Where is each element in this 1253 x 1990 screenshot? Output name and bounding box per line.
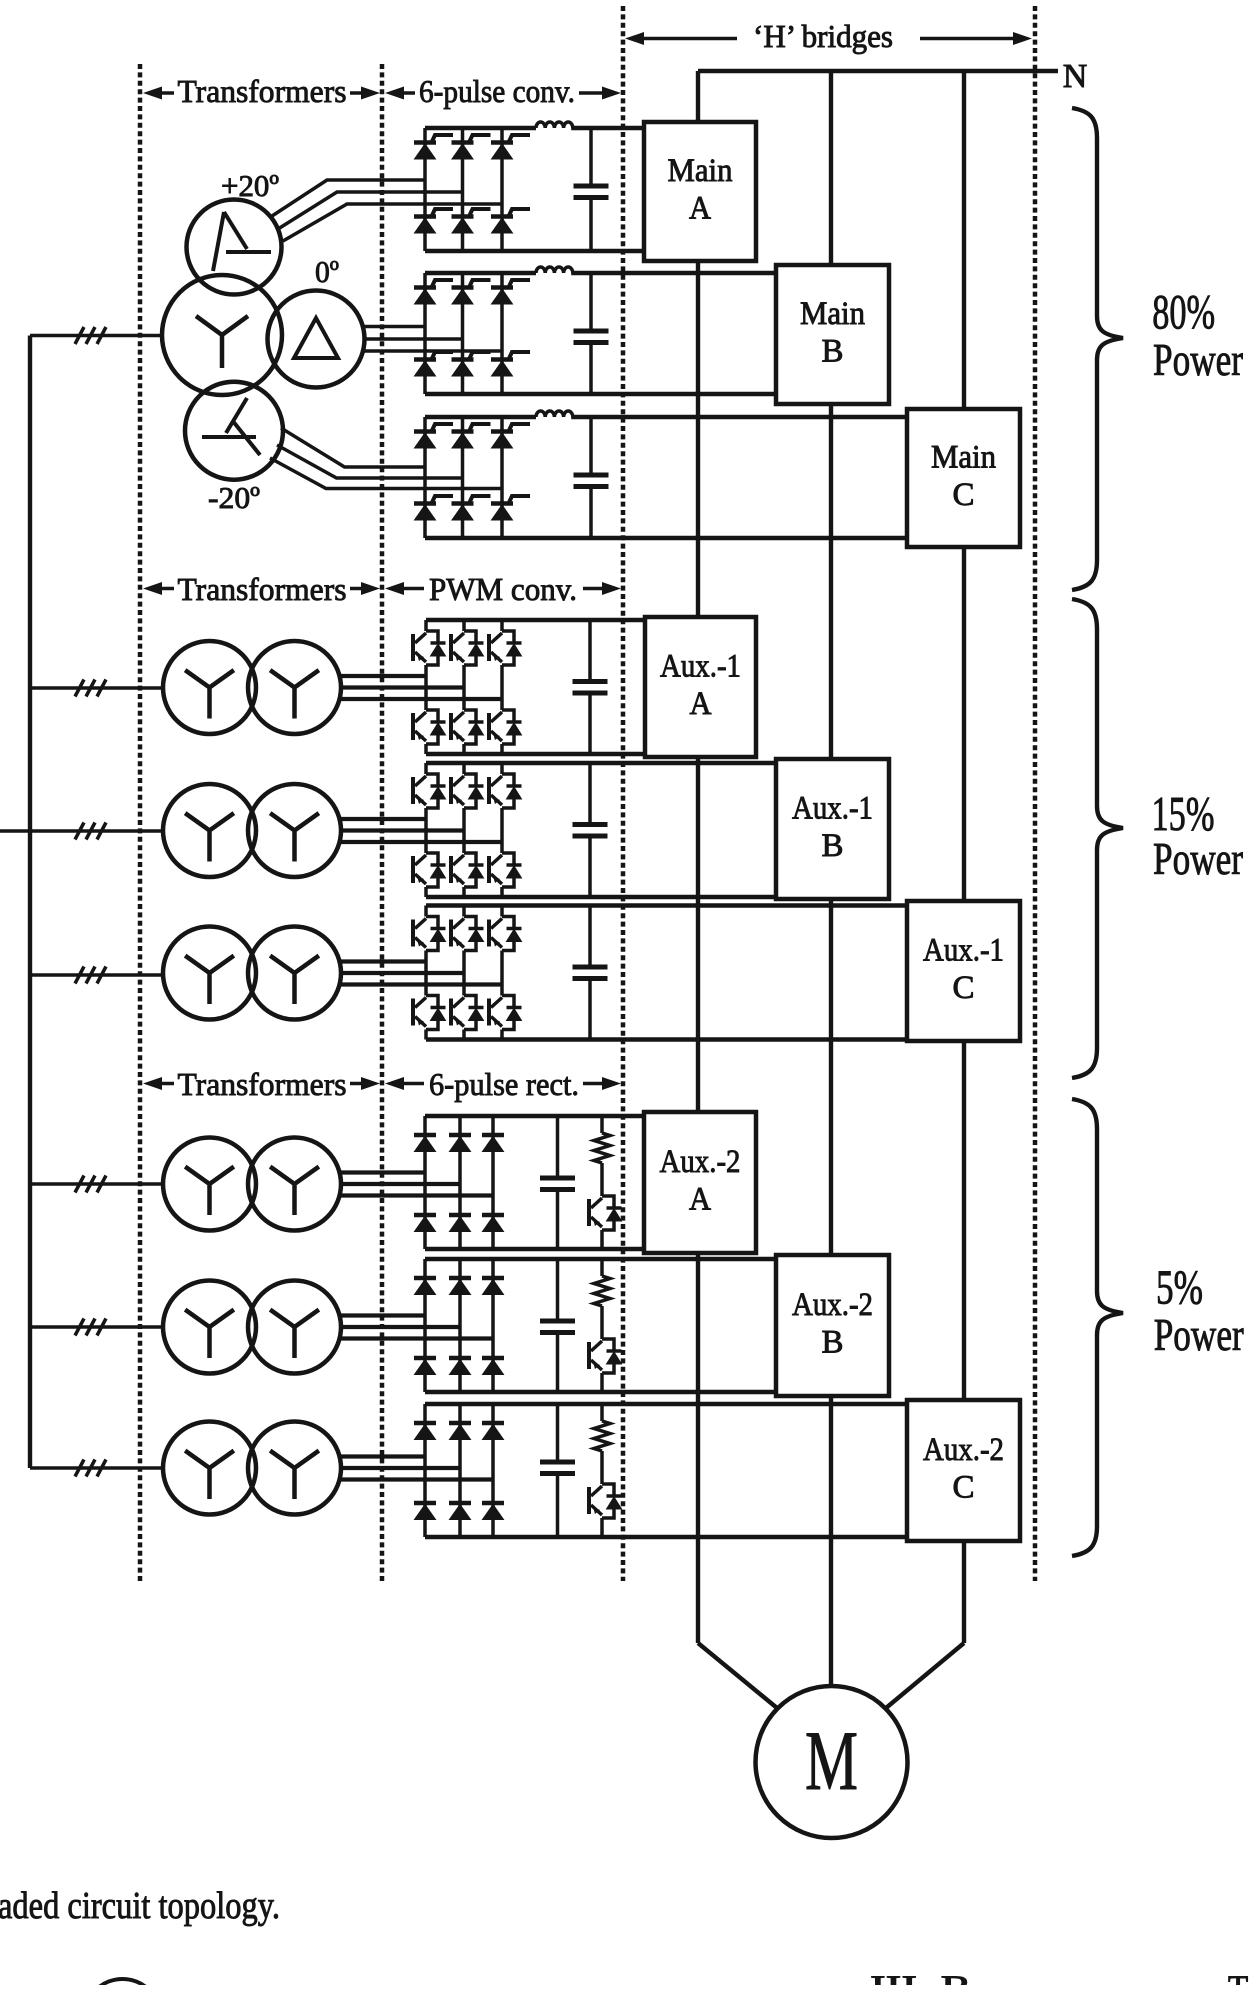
svg-text:Aux.-1: Aux.-1 xyxy=(923,933,1004,969)
three-phase slash marks on Aux-2 A feed xyxy=(75,1176,84,1193)
inductor on B1 (+20deg) dc link xyxy=(536,122,573,128)
svg-text:Transformers: Transformers xyxy=(178,1066,347,1102)
svg-text:6-pulse conv.: 6-pulse conv. xyxy=(419,73,575,109)
thyristor B3 (-20deg) upper leg 2 xyxy=(452,424,491,448)
capacitor Aux-1 B dc link xyxy=(573,763,608,897)
thyristor B3 (-20deg) lower leg 2 xyxy=(452,496,491,520)
H-bridge cell Aux.-2 A xyxy=(644,1112,756,1253)
inductor on B2 (0deg) dc link xyxy=(536,267,573,273)
wire: Aux-1 B three-phase output lines xyxy=(340,819,503,842)
wire: Aux-1 C feed xyxy=(30,973,163,977)
H-bridge cell Aux.-2 B xyxy=(776,1255,889,1396)
diode Aux-2 B upper leg 3 xyxy=(482,1278,504,1295)
transformer Aux-1 C secondary wye circle xyxy=(248,927,341,1020)
H-bridge cell Main A xyxy=(644,122,756,261)
IGBT Aux-1 A lower leg 2 xyxy=(451,710,484,744)
PWM IGBT bridge Aux-1 C xyxy=(426,906,907,1040)
transformer Aux-2 C primary wye circle xyxy=(163,1422,256,1515)
thyristor B1 (+20deg) upper leg 2 xyxy=(452,135,491,159)
partial circle of next figure xyxy=(85,1979,161,1990)
H-bridge cell Aux.-1 B xyxy=(776,759,889,899)
svg-text:PWM conv.: PWM conv. xyxy=(429,571,577,607)
wire: phase B series bus xyxy=(829,71,833,1687)
transformer Aux-2 A primary wye circle xyxy=(163,1138,256,1231)
IGBT Aux-1 C upper leg 3 xyxy=(489,917,522,951)
label: Transformers (bottom row) with arrows xyxy=(143,1066,380,1102)
IGBT Aux-1 C lower leg 1 xyxy=(413,996,446,1030)
diode Aux-2 C upper leg 1 xyxy=(414,1423,436,1440)
svg-text:N: N xyxy=(1063,58,1088,95)
thyristor B2 (0deg) upper leg 3 xyxy=(491,280,530,304)
transformer T1 primary: wye circle xyxy=(162,275,282,395)
IGBT Aux-1 A upper leg 1 xyxy=(413,631,446,665)
capacitor B2 (0deg) dc link xyxy=(574,273,609,394)
svg-text:C: C xyxy=(953,1470,975,1506)
H-bridge cell Aux.-2 C xyxy=(907,1400,1020,1541)
svg-text:Main: Main xyxy=(668,153,733,189)
svg-text:6-pulse rect.: 6-pulse rect. xyxy=(429,1066,579,1102)
wire: Aux-2 A feed xyxy=(30,1182,163,1186)
transformer Aux-2 B secondary wye circle xyxy=(248,1281,341,1374)
wire: Aux-2 C three-phase output lines xyxy=(340,1457,494,1480)
label 5% Power xyxy=(1154,1260,1244,1361)
diode Aux-2 A lower leg 3 xyxy=(482,1215,504,1232)
svg-text:III. R: III. R xyxy=(870,1970,972,1985)
three-phase slash marks on Aux-1 C feed xyxy=(75,967,84,984)
label: Transformers (top row) with arrows xyxy=(143,73,380,109)
wire: Aux-2 B three-phase output lines xyxy=(340,1316,494,1339)
dashed boundary line: H-bridges right xyxy=(1033,6,1038,1581)
wire: left vertical distribution bus xyxy=(28,336,32,1469)
svg-text:Power: Power xyxy=(1154,1309,1244,1360)
transformer T1 secondary 0deg delta winding circle xyxy=(268,291,365,388)
6-pulse diode rectifier Aux-2 C xyxy=(425,1404,907,1537)
capacitor Aux-1 A dc link xyxy=(573,620,608,754)
svg-text:Power: Power xyxy=(1153,334,1243,385)
brake chopper IGBT Aux-2 C xyxy=(589,1484,622,1537)
three-phase slash marks on Aux-1 B feed (from supply) xyxy=(75,823,84,840)
capacitor Aux-2 A dc link xyxy=(540,1116,575,1249)
brake resistor Aux-2 C xyxy=(594,1404,610,1484)
diode Aux-2 A upper leg 1 xyxy=(414,1135,436,1152)
wire: -20deg three-phase lines to 6-pulse bridge 3 xyxy=(270,428,502,489)
capacitor Aux-1 C dc link xyxy=(573,906,608,1040)
svg-text:M: M xyxy=(805,1714,858,1808)
wire: main transformer feed xyxy=(30,334,163,338)
three-phase slash marks on main transformer feed xyxy=(75,327,84,344)
svg-text:B: B xyxy=(822,828,844,864)
brace 5% power group xyxy=(1072,1099,1123,1556)
wire: Aux-1 A three-phase output lines xyxy=(340,676,503,699)
svg-text:Aux.-2: Aux.-2 xyxy=(660,1144,741,1180)
transformer Aux-2 A secondary wye circle xyxy=(248,1138,341,1231)
label: PWM conv. with arrows xyxy=(385,571,621,607)
capacitor Aux-2 B dc link xyxy=(540,1259,575,1392)
three-phase slash marks on Aux-1 A feed xyxy=(75,680,84,697)
transformer Aux-1 A primary wye circle xyxy=(163,641,256,734)
svg-text:A: A xyxy=(689,1182,711,1218)
wire: Aux-1 C three-phase output lines xyxy=(340,962,503,985)
thyristor B2 (0deg) lower leg 3 xyxy=(491,352,530,376)
IGBT Aux-1 B upper leg 1 xyxy=(413,774,446,808)
thyristor B3 (-20deg) upper leg 3 xyxy=(491,424,530,448)
thyristor B3 (-20deg) lower leg 3 xyxy=(491,496,530,520)
svg-text:B: B xyxy=(822,1325,844,1361)
thyristor B3 (-20deg) lower leg 1 xyxy=(414,496,453,520)
IGBT Aux-1 B upper leg 2 xyxy=(451,774,484,808)
capacitor Aux-2 C dc link xyxy=(540,1404,575,1537)
diode Aux-2 B lower leg 1 xyxy=(414,1358,436,1375)
label: 'H' bridges with arrows xyxy=(625,18,1032,54)
PWM IGBT bridge Aux-1 A xyxy=(426,620,645,754)
diode Aux-2 A lower leg 2 xyxy=(449,1215,471,1232)
thyristor B1 (+20deg) upper leg 3 xyxy=(491,135,530,159)
IGBT Aux-1 B lower leg 3 xyxy=(489,853,522,887)
label 15% Power xyxy=(1152,786,1244,884)
label: 6-pulse rect. with arrows xyxy=(385,1066,621,1102)
svg-text:Transformers: Transformers xyxy=(178,73,347,109)
dashed boundary line: converters/H-bridges xyxy=(621,6,626,1581)
transformer T1 secondary -20deg zigzag winding circle xyxy=(185,382,283,480)
wire: 0deg three-phase lines to 6-pulse bridge 2 xyxy=(364,327,502,352)
IGBT Aux-1 A upper leg 2 xyxy=(451,631,484,665)
6-pulse diode rectifier Aux-2 B xyxy=(425,1259,776,1392)
svg-text:-20º: -20º xyxy=(208,480,260,515)
diode Aux-2 B lower leg 3 xyxy=(482,1358,504,1375)
svg-text:0º: 0º xyxy=(315,254,339,289)
transformer Aux-1 A secondary wye circle xyxy=(248,641,341,734)
label: 6-pulse conv. with arrows xyxy=(385,73,621,109)
svg-text:C: C xyxy=(953,477,975,513)
IGBT Aux-1 C lower leg 2 xyxy=(451,996,484,1030)
diode Aux-2 C upper leg 3 xyxy=(482,1423,504,1440)
thyristor B2 (0deg) upper leg 1 xyxy=(414,280,453,304)
thyristor B3 (-20deg) upper leg 1 xyxy=(414,424,453,448)
brake chopper IGBT Aux-2 B xyxy=(589,1339,622,1392)
dashed boundary line: transformers left xyxy=(138,64,143,1581)
label 80% Power xyxy=(1152,284,1243,385)
diode Aux-2 B lower leg 2 xyxy=(449,1358,471,1375)
diode Aux-2 C upper leg 2 xyxy=(449,1423,471,1440)
svg-text:Aux.-2: Aux.-2 xyxy=(923,1432,1004,1468)
three-phase slash marks on Aux-2 B feed xyxy=(75,1319,84,1336)
svg-text:5%: 5% xyxy=(1156,1260,1203,1315)
thyristor B2 (0deg) upper leg 2 xyxy=(452,280,491,304)
label: Transformers (middle row) with arrows xyxy=(143,571,380,607)
capacitor B3 (-20deg) dc link xyxy=(574,417,609,538)
diode Aux-2 B upper leg 1 xyxy=(414,1278,436,1295)
6-pulse diode rectifier Aux-2 A xyxy=(425,1116,644,1249)
svg-text:Main: Main xyxy=(800,296,865,332)
svg-text:Transformers: Transformers xyxy=(178,571,347,607)
thyristor B2 (0deg) lower leg 2 xyxy=(452,352,491,376)
svg-text:Aux.-2: Aux.-2 xyxy=(792,1287,873,1323)
transformer Aux-2 C secondary wye circle xyxy=(248,1422,341,1515)
diode Aux-2 A upper leg 2 xyxy=(449,1135,471,1152)
wire: Aux-2 B feed xyxy=(30,1325,163,1329)
brace 80% power group xyxy=(1072,108,1123,590)
transformer T1 secondary +20deg zigzag winding circle xyxy=(187,200,282,295)
svg-text:Aux.-1: Aux.-1 xyxy=(792,791,873,827)
IGBT Aux-1 B lower leg 2 xyxy=(451,853,484,887)
dashed boundary line: transformers/converters xyxy=(380,64,385,1581)
wire: phase C series bus xyxy=(886,71,964,1708)
IGBT Aux-1 A upper leg 3 xyxy=(489,631,522,665)
IGBT Aux-1 C upper leg 1 xyxy=(413,917,446,951)
svg-text:C: C xyxy=(953,970,975,1006)
diode Aux-2 C lower leg 3 xyxy=(482,1503,504,1520)
IGBT Aux-1 C upper leg 2 xyxy=(451,917,484,951)
H-bridge cell Main C xyxy=(907,409,1020,547)
brake resistor Aux-2 B xyxy=(594,1259,610,1339)
diode Aux-2 C lower leg 2 xyxy=(449,1503,471,1520)
thyristor B1 (+20deg) lower leg 1 xyxy=(414,209,453,233)
wire: Aux-2 C feed xyxy=(30,1466,163,1470)
wire: Aux-1 A feed xyxy=(30,686,163,690)
diode Aux-2 B upper leg 2 xyxy=(449,1278,471,1295)
H-bridge cell Main B xyxy=(776,265,889,404)
diode Aux-2 C lower leg 1 xyxy=(414,1503,436,1520)
svg-text:80%: 80% xyxy=(1152,284,1215,339)
thyristor B1 (+20deg) upper leg 1 xyxy=(414,135,453,159)
wire: neutral bus N rail xyxy=(698,69,1058,73)
thyristor B1 (+20deg) lower leg 2 xyxy=(452,209,491,233)
diode Aux-2 A lower leg 1 xyxy=(414,1215,436,1232)
wire: Aux-2 A three-phase output lines xyxy=(340,1173,494,1196)
H-bridge cell Aux.-1 A xyxy=(645,617,756,757)
IGBT Aux-1 B upper leg 3 xyxy=(489,774,522,808)
6-pulse thyristor bridge B1 (+20deg) xyxy=(425,128,644,251)
svg-text:A: A xyxy=(690,686,712,722)
brake resistor Aux-2 A xyxy=(594,1116,610,1196)
motor M xyxy=(756,1686,908,1838)
svg-text:Aux.-1: Aux.-1 xyxy=(660,649,741,685)
svg-text:Power: Power xyxy=(1153,833,1243,884)
svg-text:A: A xyxy=(689,191,711,227)
IGBT Aux-1 B lower leg 1 xyxy=(413,853,446,887)
wire: +20deg three-phase lines to 6-pulse bridge 1 xyxy=(272,180,502,241)
transformer Aux-1 C primary wye circle xyxy=(163,927,256,1020)
svg-text:B: B xyxy=(822,334,844,370)
thyristor B1 (+20deg) lower leg 3 xyxy=(491,209,530,233)
transformer Aux-1 B primary wye circle xyxy=(163,784,256,877)
PWM IGBT bridge Aux-1 B xyxy=(426,763,776,897)
inductor on B3 (-20deg) dc link xyxy=(536,411,573,417)
three-phase slash marks on Aux-2 C feed xyxy=(75,1460,84,1477)
diode Aux-2 A upper leg 3 xyxy=(482,1135,504,1152)
IGBT Aux-1 A lower leg 1 xyxy=(413,710,446,744)
wire: Aux-1 B feed (from supply) xyxy=(0,829,163,833)
6-pulse thyristor bridge B3 (-20deg) xyxy=(425,417,907,538)
IGBT Aux-1 A lower leg 3 xyxy=(489,710,522,744)
brake chopper IGBT Aux-2 A xyxy=(589,1196,622,1249)
brace 15% power group xyxy=(1072,599,1123,1078)
transformer Aux-1 B secondary wye circle xyxy=(248,784,341,877)
H-bridge cell Aux.-1 C xyxy=(907,901,1020,1041)
capacitor B1 (+20deg) dc link xyxy=(574,128,609,251)
6-pulse thyristor bridge B2 (0deg) xyxy=(425,273,776,394)
thyristor B2 (0deg) lower leg 1 xyxy=(414,352,453,376)
svg-text:aded circuit topology.: aded circuit topology. xyxy=(0,1885,280,1927)
wire: phase A series bus xyxy=(698,71,777,1708)
svg-text:‘H’ bridges: ‘H’ bridges xyxy=(753,18,893,54)
transformer Aux-2 B primary wye circle xyxy=(163,1281,256,1374)
svg-text:T: T xyxy=(1228,1970,1248,1985)
svg-text:+20º: +20º xyxy=(221,168,279,203)
IGBT Aux-1 C lower leg 3 xyxy=(489,996,522,1030)
svg-text:Main: Main xyxy=(931,440,996,476)
